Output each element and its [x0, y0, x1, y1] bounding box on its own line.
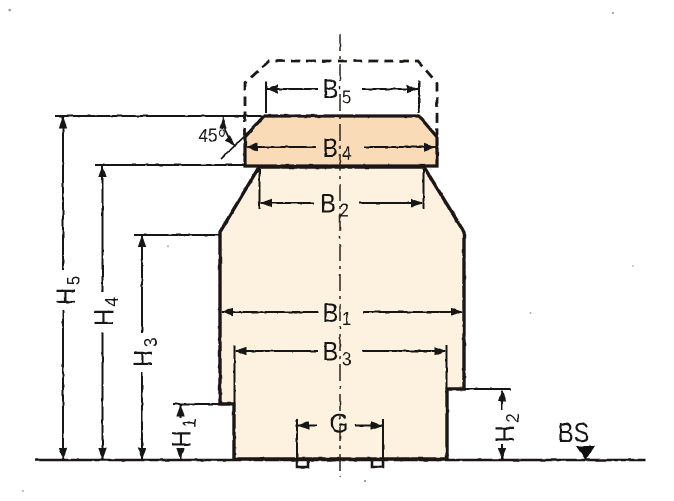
dashed upper outline: [245, 61, 437, 137]
dimension H2: [498, 390, 506, 461]
rail notch right: [372, 459, 383, 467]
center line: [339, 34, 341, 477]
ground line: [35, 459, 646, 462]
extension line H3: [134, 234, 219, 236]
label 45deg: [199, 124, 226, 146]
dimension H1: [176, 405, 184, 461]
dimension B3: [235, 345, 447, 403]
extension line H1: [173, 403, 220, 405]
label B5: [323, 75, 352, 108]
dimension H4: [98, 165, 106, 460]
dimension G: [297, 419, 383, 458]
svg-text:H4: H4: [90, 297, 122, 326]
rail notch left: [297, 459, 308, 467]
dimension H5: [59, 116, 67, 460]
pantograph zone band (orange): [245, 116, 437, 166]
svg-text:H3: H3: [129, 338, 161, 367]
extension line H4: [95, 164, 244, 166]
dimension B2: [260, 169, 424, 209]
label BS: [558, 418, 589, 448]
svg-text:G: G: [330, 409, 349, 438]
label B3: [323, 337, 352, 369]
svg-text:H2: H2: [491, 413, 523, 442]
main profile body (cream): [220, 167, 464, 459]
svg-text:B5: B5: [323, 75, 352, 108]
svg-text:45o: 45o: [199, 124, 226, 146]
45-degree leader line: [221, 131, 250, 159]
extension line H2: [464, 388, 511, 390]
dimension B1: [221, 308, 463, 316]
svg-text:BS: BS: [558, 418, 589, 448]
label G: [330, 409, 349, 438]
label B4: [323, 134, 352, 164]
label B1: [323, 299, 352, 329]
dimension B4: [246, 143, 436, 151]
45-degree arc with arrows: [219, 117, 235, 147]
label B2: [320, 189, 349, 220]
BS ground marker triangle: [576, 446, 595, 460]
svg-text:H5: H5: [52, 276, 84, 305]
svg-text:H1: H1: [167, 418, 199, 447]
extension line H5: [55, 115, 264, 117]
dimension B5: [266, 81, 419, 113]
dimension H3: [138, 235, 146, 460]
